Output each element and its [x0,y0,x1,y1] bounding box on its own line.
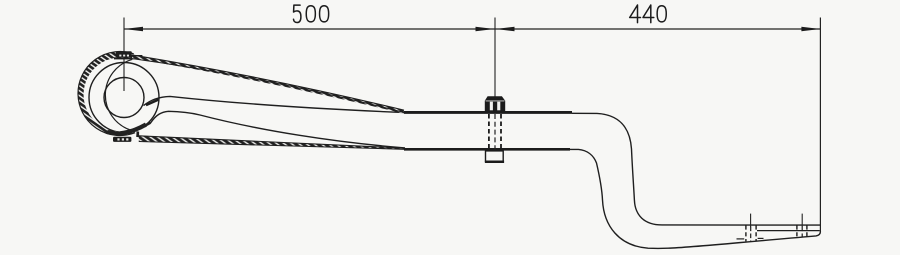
label 500 [294,5,329,22]
center bolt head [485,96,505,111]
arrowhead left of 440 [496,27,515,32]
dimension line 500 [124,28,495,30]
hole 2 center hidden line [801,227,803,238]
arrowhead right of 500 [476,27,495,32]
bolt shank hidden line right [500,114,502,149]
bolt center line lower (dash-dot) [494,114,496,151]
bolt shank hidden line left [488,114,490,149]
arrowhead right of 440 [801,27,820,32]
arrowhead left of 500 [124,27,143,32]
rear end inner edge line [757,230,820,232]
second leaf wrap descending band (hatched) [132,55,407,114]
hole 1 hidden side right [755,225,757,241]
notch line right of hole 1 [758,237,764,239]
top clip step bar [132,55,143,58]
bolt nut [485,151,504,162]
notch line left of hole 1 [737,238,745,240]
upper leaf gooseneck [572,113,820,225]
band over leaf: thick top segment to gooseneck [404,111,572,114]
hole 2 center tick [801,214,803,227]
label 440 [630,5,667,23]
hatched wedge at leaf top edge root [146,100,159,106]
lower leaf gooseneck and bottom outline [570,149,820,248]
bushing outer circle [89,63,159,133]
main leaf bottom edge [151,111,406,148]
second leaf tapered band under eye [139,136,405,150]
dimension line 440 [495,28,820,30]
eye bore circle [104,78,144,118]
wrap band end cap at bottom [107,125,146,134]
top clip block [116,51,132,57]
hole 2 hidden side left [796,225,798,237]
hole 1 center tick [750,214,752,228]
top clip lower bar [114,57,139,59]
lower leaf thick line at bolt [404,148,570,151]
main leaf top edge [144,96,406,112]
extension line right at spring end [819,18,821,232]
extension line / bolt center line upper [494,18,496,97]
bottom clip block [113,137,131,142]
hole 1 hidden side left [745,225,747,241]
hole 1 center hidden line [750,227,752,242]
military wrap band around eye (hatched) [78,52,135,136]
hole 2 hidden side right [806,225,808,237]
extension line / eye center line [123,18,125,92]
